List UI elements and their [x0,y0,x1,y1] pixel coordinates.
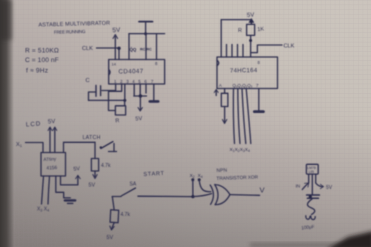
node LATCH wire [64,135,101,159]
svg-text:CD4047: CD4047 [118,68,143,75]
IC U1 CD4047 [109,60,165,85]
svg-text:5V: 5V [247,12,255,18]
title text ASTABLE MULTIVIBRATOR [38,21,110,35]
resistor on pin A [221,89,228,124]
node 5V (pins 4-6) [134,84,147,122]
svg-text:5V: 5V [73,166,81,173]
capacitor C [86,78,116,100]
IC U4 LM7805 [306,164,318,174]
IC U2 74HC164 [217,57,278,89]
wire X2 to gate input [191,178,211,198]
svg-text:4.7k: 4.7k [101,163,111,169]
input A arrow [214,90,218,96]
resistor 4.7k (latch pull) [89,159,111,189]
node 5V (MCU) [48,119,57,153]
svg-text:NPN: NPN [216,168,227,174]
svg-text:SA: SA [130,182,137,188]
svg-text:FREE RUNNING: FREE RUNNING [54,29,86,35]
svg-text:f ≈ 9Hz: f ≈ 9Hz [26,68,48,75]
wire stubs top of 74HC164 [227,45,244,58]
svg-text:1K: 1K [257,26,264,33]
svg-text:5V: 5V [48,119,56,125]
svg-text:R = 510KΩ: R = 510KΩ [25,47,59,54]
svg-text:CLK: CLK [82,46,93,52]
label NPN TRANSISTOR XOR [216,168,258,181]
svg-text:L05: L05 [309,170,315,174]
svg-text:C = 100 nF: C = 100 nF [25,57,59,64]
svg-text:R: R [238,28,242,34]
output wires X1-X4 [233,89,250,144]
resistor R 1K [238,24,265,57]
svg-text:4156: 4156 [46,165,57,172]
svg-text:14: 14 [112,62,117,67]
switch SA [112,182,193,197]
svg-text:X1X2X3X4: X1X2X3X4 [230,147,250,153]
ground (MCU) [56,176,75,203]
svg-text:5V: 5V [135,116,143,122]
svg-text:R: R [115,118,120,124]
svg-text:START: START [143,171,165,178]
svg-text:5V: 5V [112,27,121,35]
node IN [296,183,309,190]
node CLK (74HC164) [251,44,295,53]
node 5V (CD4047 supply) [112,27,121,60]
svg-text:C: C [86,78,90,84]
wire rail drops to IC top [129,34,157,60]
ground (74HC164) [254,89,263,112]
node X1 input [16,142,43,153]
wire RC common node [89,84,127,102]
svg-text:IN: IN [296,184,301,189]
svg-text:CLK: CLK [284,44,295,50]
gate XOR [210,185,230,205]
regulator legs [309,174,316,195]
capacitor 100uF [301,195,319,230]
svg-text:5V: 5V [89,183,96,189]
resistor R [109,84,126,124]
node CLK input [82,46,121,60]
svg-text:74HC164: 74HC164 [230,68,258,74]
resistor 4.7k (start pull) [107,197,131,242]
svg-text:ATtiny: ATtiny [43,156,57,162]
wire X4 to gate input [198,178,211,191]
IC U3 MCU ATtiny [41,153,66,177]
switch (latch) [100,142,117,152]
wire XOR output [230,186,266,196]
svg-text:LATCH: LATCH [83,135,101,141]
pin labels QQ RCRC above IC [130,47,153,52]
svg-text:5V: 5V [326,185,333,191]
node labels X2 X4 [190,173,203,179]
wires X3 X4 pins [42,176,50,204]
svg-text:5V: 5V [107,235,114,241]
node 5V (MCU corner arrow) [61,166,81,185]
svg-text:4.7k: 4.7k [121,212,131,218]
svg-text:Q0Q1Q2Q3: Q0Q1Q2Q3 [233,83,253,89]
svg-text:X1: X1 [16,142,23,148]
node 5V (74HC164 supply) [221,12,254,57]
node 5V out [316,183,333,191]
dark table edge left [0,0,14,247]
ground (CD4047 VSS) [150,84,158,101]
svg-text:Q̄Q: Q̄Q [130,47,137,52]
dark table corner bottom-right [326,231,371,247]
svg-text:LCD: LCD [26,120,42,128]
power rail bar above CD4047 [129,22,165,36]
